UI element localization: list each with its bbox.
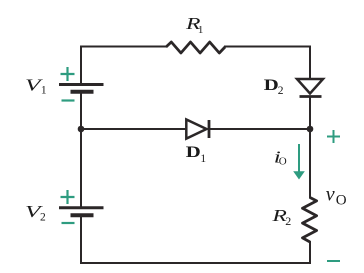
svg-text:2: 2 (285, 214, 291, 228)
svg-text:2: 2 (278, 85, 284, 97)
svg-text:2: 2 (40, 212, 46, 224)
svg-text:O: O (336, 193, 347, 209)
svg-text:O: O (279, 155, 287, 167)
svg-text:D: D (264, 77, 279, 94)
svg-text:1: 1 (200, 153, 206, 165)
svg-text:1: 1 (41, 85, 47, 97)
svg-text:1: 1 (198, 24, 204, 36)
svg-text:D: D (186, 144, 201, 161)
svg-text:v: v (326, 184, 335, 206)
